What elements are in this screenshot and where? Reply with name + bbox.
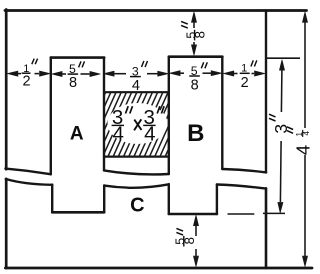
- svg-text:4: 4: [144, 123, 155, 146]
- hatching of waste square: [60, 91, 205, 160]
- svg-text:8: 8: [69, 75, 77, 91]
- label 5/8" rotated: [181, 21, 208, 40]
- svg-text:3: 3: [271, 124, 291, 134]
- piece C notch 1 bottom: [52, 211, 104, 214]
- piece A top edge: [51, 56, 104, 59]
- svg-text:2: 2: [22, 73, 30, 89]
- label 5/8" rotated: [174, 228, 197, 246]
- piece labels: [70, 120, 205, 217]
- svg-text:C: C: [130, 195, 144, 217]
- down arrow: [302, 256, 307, 267]
- svg-text:4: 4: [112, 123, 123, 146]
- svg-text:2: 2: [241, 75, 249, 91]
- left arrow: [7, 71, 18, 76]
- svg-text:8: 8: [191, 77, 199, 93]
- svg-text:8: 8: [193, 31, 208, 39]
- white window for 3/4 x 3/4 label: [108, 103, 168, 144]
- hatched waste square top edge: [104, 91, 169, 93]
- up arrow: [279, 60, 284, 70]
- piece B right edge: [221, 57, 223, 169]
- upper board right edge: [265, 11, 267, 173]
- piece B top edge: [169, 55, 223, 58]
- label 4 1/4" rotated: [287, 127, 314, 155]
- upper board left edge: [5, 10, 8, 170]
- piece C left edge: [5, 179, 8, 268]
- svg-text:4: 4: [302, 131, 311, 136]
- upper board broken bottom edge, right wing: [222, 169, 266, 172]
- piece B left edge: [168, 57, 170, 174]
- piece C notch 2 bottom: [169, 213, 217, 216]
- piece C notch 2 right wall: [216, 184, 218, 214]
- top extension line: [266, 57, 300, 59]
- down arrow: [191, 45, 196, 56]
- piece C right edge: [265, 188, 268, 268]
- piece C top edge left part: [6, 179, 52, 185]
- label 3/4" x 3/4" in waste square: [112, 106, 165, 146]
- piece C top edge middle part: [104, 184, 169, 187]
- up arrow: [193, 215, 198, 226]
- piece C notch 1 left wall: [51, 185, 53, 213]
- svg-text:4: 4: [132, 78, 140, 94]
- down arrow: [193, 256, 198, 267]
- svg-text:A: A: [70, 124, 84, 145]
- upper board broken bottom edge, middle section: [104, 170, 169, 174]
- svg-text:8: 8: [182, 237, 197, 245]
- bottom extension line segments: [228, 213, 255, 215]
- label 3" rotated: [269, 114, 291, 133]
- hatched waste square bottom edge: [104, 156, 169, 158]
- piece C notch 2 left wall: [168, 184, 170, 214]
- piece A left edge: [50, 57, 52, 174]
- upper board top edge: [5, 9, 307, 12]
- down arrow: [278, 202, 283, 213]
- bottom edge of drawing: [5, 267, 312, 270]
- up arrow: [191, 12, 196, 22]
- piece C top edge right part: [217, 185, 266, 189]
- piece A right edge: [103, 58, 105, 171]
- svg-text:B: B: [187, 120, 204, 147]
- up arrow: [302, 12, 307, 22]
- svg-text:4: 4: [293, 145, 314, 155]
- right arrow: [40, 71, 51, 76]
- upper board broken bottom edge, left wing: [5, 169, 50, 175]
- piece C notch 1 right wall: [103, 185, 105, 212]
